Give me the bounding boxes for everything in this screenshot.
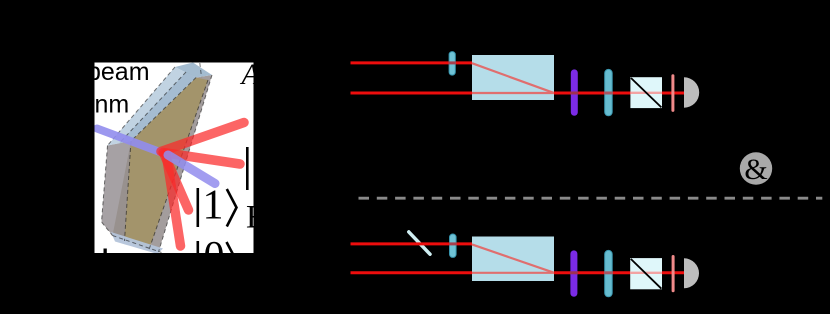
crystal inner glass strip [119, 72, 196, 144]
svg-text:beam: beam [87, 58, 150, 86]
beam: top line (row 2) [351, 242, 473, 245]
svg-text:E: E [246, 200, 266, 236]
SPDC beam R3 (down-right) [164, 154, 189, 210]
svg-text:A: A [240, 58, 261, 91]
pump beam out (violet) [168, 155, 215, 184]
crystal right side face (gray) [149, 75, 212, 252]
PBS cube (row 2) [630, 258, 662, 289]
ket |1>E label [197, 183, 267, 236]
filter (salmon, row 2) [672, 255, 675, 292]
beam: top line (row 1) [351, 61, 473, 64]
detector (row 1) [684, 77, 699, 107]
inset photo: white panel [95, 63, 254, 254]
through beam (row 2) [472, 272, 554, 274]
svg-text:nm: nm [95, 91, 130, 119]
svg-text:0: 0 [204, 234, 225, 280]
SPDC beam R2 (right) [163, 153, 240, 165]
detector (row 2) [684, 258, 699, 288]
lens L2 (cyan, row 2) [605, 250, 613, 296]
crystal front face (tan) [113, 78, 209, 250]
SPDC beam R4 (down) [166, 153, 181, 246]
filter (salmon, row 1) [671, 74, 674, 112]
lens L1 (small, row 1) [449, 52, 455, 76]
svg-text:1: 1 [203, 183, 224, 229]
ket fragment bar (right edge) [246, 147, 249, 190]
crystal top-edge glass band (light blue) [108, 67, 197, 146]
crystal bottom face [111, 232, 163, 254]
crystal left side face (gray) [102, 141, 132, 241]
PBS cube (row 1) [630, 77, 662, 108]
svg-text:&: & [744, 153, 767, 186]
beam: bottom line (row 1) [351, 92, 685, 95]
letter fragment bottom-left [104, 249, 107, 254]
lens L1 (small, row 2) [450, 234, 457, 257]
crystal top face [175, 63, 212, 78]
displaced beam (diagonal, row 1) [472, 63, 554, 93]
separator dashed line [359, 197, 823, 200]
waveplate (violet, row 2) [570, 250, 577, 296]
lens L2 (cyan, row 1) [605, 69, 613, 115]
tilted glass plate (row 2) [409, 232, 430, 254]
displaced beam (diagonal, row 2) [472, 244, 554, 272]
crystal dashed edges [102, 63, 213, 253]
beam displacer crystal (row 2) [472, 237, 554, 282]
waveplate (violet, row 1) [571, 69, 578, 115]
ket |0> label (cropped at bottom) [197, 234, 237, 280]
SPDC beam R1 (up-right) [161, 123, 244, 152]
coincidence unit: & circle [740, 152, 772, 184]
pump beam in (violet) [97, 129, 168, 156]
through beam (row 1) [472, 92, 554, 94]
beam: bottom line (row 2) [351, 271, 685, 274]
beam displacer crystal (row 1) [472, 55, 554, 100]
